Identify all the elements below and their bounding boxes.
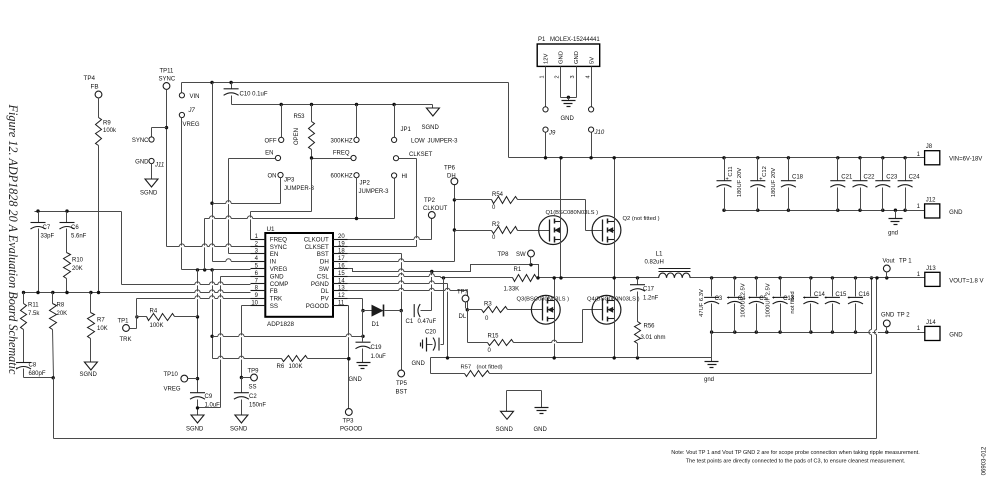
svg-text:R10: R10 (72, 258, 84, 264)
svg-text:TP1: TP1 (118, 319, 130, 325)
svg-text:LOW: LOW (411, 139, 425, 145)
svg-text:300KHZ: 300KHZ (330, 138, 352, 144)
svg-text:33pF: 33pF (41, 234, 55, 240)
svg-text:gnd: gnd (888, 231, 898, 237)
transistor Q4 BSC080N03LS (587, 295, 640, 324)
capacitor C15 (824, 278, 847, 333)
svg-text:FREQ: FREQ (270, 236, 287, 243)
svg-text:7.5k: 7.5k (28, 311, 40, 317)
capacitor C4 (727, 278, 747, 333)
value label 47UF 6.3V (699, 289, 705, 317)
svg-text:J8: J8 (926, 144, 933, 150)
svg-text:SS: SS (249, 385, 257, 391)
svg-text:C18: C18 (792, 175, 804, 181)
svg-text:SYNC: SYNC (270, 244, 288, 251)
svg-text:COMP: COMP (270, 281, 289, 288)
svg-text:C1: C1 (406, 319, 414, 325)
svg-text:FB: FB (91, 84, 99, 91)
svg-text:CLKOUT: CLKOUT (304, 236, 329, 243)
svg-text:Q1(BSC080N03LS ): Q1(BSC080N03LS ) (546, 210, 599, 216)
capacitor C7 33pF (31, 212, 55, 293)
svg-text:SW: SW (516, 252, 526, 258)
svg-text:JUMPER-3: JUMPER-3 (428, 139, 459, 145)
svg-text:11: 11 (338, 301, 345, 307)
test point TP2 GND (881, 313, 910, 333)
resistor R3 0 (468, 302, 543, 323)
wire VOUT sense line (54, 278, 877, 439)
wire DH pin 17 (348, 185, 457, 262)
svg-text:600KHZ: 600KHZ (330, 174, 352, 180)
capacitor C6 5.6nF (60, 212, 87, 253)
ground gnd at PGND rail (704, 358, 719, 384)
capacitor C24 (898, 158, 921, 211)
svg-text:JUMPER-3: JUMPER-3 (284, 186, 315, 192)
svg-text:EN: EN (270, 251, 279, 258)
resistor R9 100k (96, 98, 118, 293)
svg-text:100k: 100k (103, 128, 117, 134)
svg-text:FB: FB (270, 288, 278, 295)
wire Q3/Q4 drain-source verticals (553, 276, 616, 357)
transistor Q2 not fitted (592, 216, 660, 245)
svg-text:TP 2: TP 2 (897, 313, 910, 319)
svg-text:R54: R54 (492, 192, 504, 198)
svg-text:R8: R8 (57, 303, 65, 309)
svg-text:OPEN: OPEN (294, 128, 300, 145)
svg-text:C12: C12 (762, 166, 768, 177)
svg-text:C20: C20 (425, 330, 437, 336)
test point TP3 PGOOD (340, 409, 363, 433)
svg-text:Note: Vout TP 1 and Vout TP GN: Note: Vout TP 1 and Vout TP GND 2 are fo… (671, 450, 920, 456)
wire VIN rail (509, 156, 925, 159)
svg-text:1: 1 (539, 75, 545, 78)
svg-text:180UF 20V: 180UF 20V (771, 168, 777, 197)
svg-text:GND: GND (135, 160, 149, 166)
capacitor C21 (830, 158, 853, 211)
jumper JP1 LOW/CLKSET/HI (392, 105, 459, 145)
svg-text:not fitted: not fitted (790, 291, 796, 313)
svg-text:SYNC: SYNC (132, 138, 149, 144)
sidebar code 06903-012 (982, 446, 988, 475)
jumper JP3 OFF/EN/ON (265, 105, 284, 145)
wire CLKOUT pin 20 to TP2 (348, 219, 432, 240)
svg-text:VREG: VREG (183, 122, 200, 128)
ground GND below P1 (561, 101, 576, 123)
wire FB rail (22, 291, 251, 294)
capacitor C22 (853, 158, 876, 211)
capacitor C12 180UF 20V (750, 158, 777, 211)
wire GND pin 6 to SGND (198, 277, 251, 408)
wire hops (179, 201, 877, 359)
svg-text:JP3: JP3 (284, 178, 295, 184)
wire VREG to PV tie (210, 270, 364, 359)
resistor R56 3.01 ohm (635, 322, 666, 358)
svg-text:10: 10 (251, 301, 258, 307)
resistor R8 20K (50, 293, 68, 439)
svg-text:OFF: OFF (265, 138, 277, 144)
capacitor C19 1.0uF (356, 311, 387, 363)
svg-text:TRK: TRK (270, 296, 283, 303)
svg-text:+: + (847, 296, 851, 302)
svg-text:R2: R2 (492, 222, 500, 228)
svg-text:C2: C2 (249, 394, 257, 400)
svg-text:5V: 5V (590, 57, 596, 64)
svg-text:TP8: TP8 (498, 252, 510, 258)
svg-text:TP4: TP4 (84, 75, 96, 82)
svg-text:JUMPER-3: JUMPER-3 (359, 189, 390, 195)
resistor R7 10K (88, 293, 108, 363)
svg-text:680pF: 680pF (29, 371, 46, 377)
connector J12 GND (917, 197, 964, 218)
connector J8 VIN (917, 144, 983, 165)
svg-text:GND: GND (559, 51, 565, 64)
svg-text:C9: C9 (205, 394, 213, 400)
svg-text:Vout: Vout (883, 259, 895, 265)
svg-text:Figure 12. ADP1828 20 A Evalua: Figure 12. ADP1828 20 A Evaluation Board… (6, 104, 20, 375)
svg-text:16: 16 (338, 264, 345, 270)
svg-text:SYNC: SYNC (159, 77, 176, 83)
svg-text:C10 0.1uF: C10 0.1uF (240, 92, 268, 98)
svg-text:GND: GND (881, 313, 895, 319)
svg-text:5.6nF: 5.6nF (71, 234, 87, 240)
svg-text:2: 2 (555, 75, 561, 78)
svg-text:20K: 20K (57, 311, 68, 317)
svg-text:C23: C23 (886, 175, 898, 181)
connector P1 MOLEX-15244441 (537, 37, 600, 79)
svg-text:Q2 (not fitted ): Q2 (not fitted ) (623, 216, 660, 222)
svg-text:SGND: SGND (496, 427, 514, 433)
ground SGND below R7 (80, 362, 98, 378)
jumper JP2 300KHZ/FREQ/600KHZ (330, 105, 359, 145)
wire VREG branch to C9 (196, 270, 199, 393)
transistor Q1 BSC080N03LS (539, 210, 598, 245)
connector J14 GND (917, 320, 964, 341)
svg-text:PGOOD: PGOOD (340, 427, 363, 433)
svg-text:J7: J7 (188, 108, 196, 114)
resistor R53 OPEN (294, 105, 315, 159)
resistor R1 1.33K (504, 267, 659, 292)
svg-text:TP3: TP3 (343, 419, 355, 425)
svg-text:SS: SS (270, 303, 278, 310)
resistor R54 0 (455, 192, 603, 231)
svg-text:SGND: SGND (140, 191, 158, 197)
svg-text:HI: HI (402, 174, 408, 180)
svg-text:C22: C22 (864, 175, 876, 181)
value label 1000UF 2.5V C4 (741, 283, 747, 317)
svg-text:R1: R1 (514, 267, 522, 273)
svg-text:D1: D1 (372, 322, 380, 328)
value label not fitted C13 (790, 291, 796, 313)
test point TP2 CLKOUT (423, 198, 448, 218)
wire VIN to top rail (182, 81, 509, 158)
ground GND tie (534, 408, 549, 434)
svg-text:TP7: TP7 (457, 290, 469, 296)
test point TP1 TRK (118, 317, 137, 344)
svg-text:R11: R11 (28, 303, 39, 309)
capacitor C8 680pF (16, 363, 54, 378)
capacitor C1 0.47uF (406, 272, 437, 326)
svg-text:GND: GND (574, 51, 580, 64)
ground SGND tie (496, 411, 514, 433)
wire SYNC net to pin 2 (152, 90, 251, 247)
svg-text:TP5: TP5 (396, 381, 408, 387)
svg-text:U1: U1 (267, 226, 276, 233)
svg-text:The test points are directly c: The test points are directly connected t… (686, 459, 906, 465)
svg-text:gnd: gnd (704, 377, 714, 383)
svg-text:J10: J10 (594, 130, 605, 136)
svg-text:GND: GND (270, 273, 284, 280)
test point TP5 BST (396, 311, 408, 396)
svg-text:SGND: SGND (230, 427, 248, 433)
wire SGND rail (232, 103, 433, 106)
jumper J11 SYNC/GND (132, 137, 164, 169)
ground gnd at input rail (888, 211, 903, 237)
wire TRK pin 9 (137, 299, 251, 317)
svg-text:C17: C17 (643, 287, 655, 293)
svg-text:Q3(BSC080N03LS ): Q3(BSC080N03LS ) (517, 297, 570, 303)
svg-text:C15: C15 (835, 292, 847, 298)
ground SGND at rail end (422, 105, 440, 132)
svg-text:TP 1: TP 1 (899, 259, 912, 265)
capacitor C17 1.2nF (630, 278, 659, 322)
svg-text:C11: C11 (728, 166, 734, 176)
wire VIN to pin 4 (210, 83, 250, 262)
jumper J9 (543, 67, 556, 158)
svg-text:JP1: JP1 (401, 127, 412, 133)
svg-text:MOLEX-15244441: MOLEX-15244441 (550, 37, 600, 43)
svg-text:C3: C3 (715, 296, 723, 302)
svg-text:47UF 6.3V: 47UF 6.3V (699, 289, 705, 317)
svg-text:ON: ON (268, 174, 277, 180)
svg-text:R53: R53 (294, 114, 306, 120)
svg-text:1.0uF: 1.0uF (205, 403, 221, 409)
svg-text:GND: GND (534, 427, 548, 433)
wire ON to VIN (213, 178, 281, 204)
svg-text:VIN=6V-18V: VIN=6V-18V (949, 157, 982, 163)
svg-text:SGND: SGND (80, 372, 98, 378)
svg-text:TP2: TP2 (424, 198, 436, 204)
wire 600KHZ/HI to VREG (205, 178, 395, 270)
test point TP4 FB (84, 75, 102, 98)
svg-text:R9: R9 (103, 121, 111, 127)
svg-text:VOUT=1.8 V: VOUT=1.8 V (949, 278, 983, 284)
svg-text:ADP1828: ADP1828 (267, 321, 294, 328)
svg-text:CLKSET: CLKSET (409, 152, 433, 158)
capacitor C23 (875, 158, 898, 211)
svg-text:C7: C7 (43, 225, 51, 231)
wire CSL pin 15 (348, 276, 513, 279)
svg-text:180UF 20V: 180UF 20V (737, 168, 743, 197)
svg-text:PV: PV (321, 296, 330, 303)
wire VREG to pin 5 (182, 118, 251, 272)
resistor R57 not fitted (431, 276, 874, 376)
capacitor C18 (781, 158, 804, 211)
svg-text:18: 18 (338, 249, 345, 255)
wire VOUT rail (691, 276, 925, 279)
test point TP11 SYNC (159, 69, 176, 90)
svg-text:12V: 12V (544, 54, 550, 64)
svg-text:3: 3 (570, 75, 576, 78)
svg-text:1.33K: 1.33K (504, 286, 520, 292)
figure caption (rotated) (6, 104, 20, 375)
svg-text:DH: DH (320, 259, 329, 266)
svg-text:CSL: CSL (317, 273, 330, 280)
svg-text:4: 4 (585, 75, 591, 78)
svg-text:J14: J14 (926, 320, 936, 326)
svg-text:1000UF 2.5V: 1000UF 2.5V (765, 283, 771, 317)
svg-text:12: 12 (338, 293, 345, 299)
svg-text:10K: 10K (97, 326, 108, 332)
value label 1000UF 2.5V C5 (765, 283, 771, 317)
resistor R6 100K pull-up (213, 356, 351, 371)
wire PGND rail (431, 356, 712, 359)
ground SGND below J11 (140, 164, 158, 197)
svg-text:DL: DL (459, 314, 467, 320)
connector J13 VOUT (917, 266, 984, 287)
inductor L1 0.82uH (645, 251, 691, 278)
wire COMP top rail (35, 209, 122, 212)
wire SW pin 16 (348, 263, 539, 277)
svg-text:R6: R6 (277, 364, 285, 370)
svg-text:R15: R15 (488, 334, 500, 340)
svg-text:TRK: TRK (120, 337, 132, 343)
test point TP1 Vout (883, 259, 913, 278)
wire PGND pin 14 (348, 284, 448, 358)
svg-text:J13: J13 (926, 266, 936, 272)
svg-text:C8: C8 (29, 363, 37, 369)
svg-text:SGND: SGND (422, 125, 440, 131)
ground GND at C20 (412, 338, 427, 368)
wire input cap rails (722, 156, 924, 212)
wire P1 pins 2/3 to GND (561, 67, 577, 101)
svg-text:R7: R7 (97, 318, 105, 324)
svg-text:14: 14 (338, 278, 345, 284)
svg-text:C16: C16 (859, 292, 871, 298)
svg-text:SGND: SGND (186, 427, 204, 433)
svg-text:100K: 100K (150, 323, 164, 329)
capacitor C10 0.1uF (224, 83, 268, 105)
ground SGND below C2 (230, 415, 248, 433)
svg-text:20: 20 (338, 234, 345, 240)
svg-text:EN: EN (265, 150, 273, 156)
svg-text:FREQ: FREQ (333, 150, 350, 156)
svg-text:J9: J9 (548, 131, 556, 137)
svg-text:GND: GND (412, 361, 426, 367)
resistor R2 0 (455, 222, 550, 241)
svg-text:L1: L1 (656, 251, 664, 258)
svg-text:R4: R4 (150, 309, 158, 315)
wire SS pin 10 to C2 (240, 306, 251, 380)
svg-text:3.01 ohm: 3.01 ohm (641, 335, 666, 341)
svg-text:1000UF 2.5V: 1000UF 2.5V (741, 283, 747, 317)
capacitor C20 (425, 278, 444, 351)
svg-text:TP11: TP11 (160, 69, 175, 75)
wire EN net to pin 3 (229, 159, 276, 254)
svg-text:C19: C19 (371, 345, 383, 351)
svg-text:C24: C24 (909, 175, 921, 181)
svg-text:C6: C6 (71, 225, 79, 231)
diode D1 (372, 305, 402, 329)
svg-text:(not fitted): (not fitted) (477, 365, 503, 371)
svg-text:1.2nF: 1.2nF (643, 296, 659, 302)
svg-text:15: 15 (338, 271, 345, 277)
wire SGND-GND tie (507, 391, 542, 412)
wire CLKSET to pin 19 (348, 159, 417, 247)
note text (671, 450, 920, 465)
svg-text:BST: BST (396, 390, 408, 396)
test point TP8 SW (498, 250, 535, 264)
svg-text:PGOOD: PGOOD (306, 303, 330, 310)
svg-text:JP2: JP2 (360, 181, 371, 187)
wire PV pin 12 to D1 (348, 299, 372, 313)
wire COMP to pin 7 (122, 212, 251, 285)
svg-text:GND: GND (949, 332, 963, 338)
wire FREQ net to pin 1 (251, 156, 351, 239)
svg-text:1.0uF: 1.0uF (371, 354, 387, 360)
svg-text:P1: P1 (538, 37, 546, 43)
ground SGND below C9 (186, 415, 204, 433)
test point TP7 DL (457, 290, 469, 321)
test point TP10 VREG (164, 372, 198, 393)
wire output cap bottom rail (710, 276, 925, 357)
resistor R10 20K (64, 253, 84, 293)
svg-text:TP10: TP10 (164, 372, 179, 378)
svg-text:R56: R56 (644, 324, 656, 330)
svg-text:J11: J11 (154, 163, 164, 169)
svg-text:GND: GND (561, 116, 575, 122)
capacitor C5 (748, 278, 768, 333)
capacitor C2 150nF (234, 378, 266, 415)
svg-text:19: 19 (338, 241, 345, 247)
svg-text:CLKOUT: CLKOUT (423, 206, 448, 212)
capacitor C16 (847, 278, 870, 333)
svg-text:GND: GND (949, 210, 963, 216)
svg-text:Q4(BSC080N03LS ): Q4(BSC080N03LS ) (587, 297, 640, 303)
resistor R11 7.5k (21, 293, 41, 363)
svg-text:06903-012: 06903-012 (982, 446, 988, 475)
capacitor C13 (772, 278, 795, 333)
capacitor C11 180UF 20V (717, 158, 744, 211)
jumper J7 VIN/VREG (179, 93, 200, 128)
svg-text:VREG: VREG (164, 387, 181, 393)
svg-text:VREG: VREG (270, 266, 288, 273)
transistor Q3 BSC080N03LS (517, 295, 570, 324)
svg-text:BST: BST (317, 251, 329, 258)
svg-text:IN: IN (270, 259, 276, 266)
svg-text:20K: 20K (72, 266, 83, 272)
wire BST pin 18 (348, 254, 403, 313)
capacitor C9 1.0uF (190, 393, 220, 415)
resistor R4 100K (135, 309, 197, 330)
svg-text:TP6: TP6 (444, 166, 456, 172)
svg-text:SW: SW (319, 266, 329, 273)
svg-text:17: 17 (338, 256, 345, 262)
svg-text:J12: J12 (926, 197, 936, 203)
wire Q1/Q2 drain-source verticals (561, 158, 615, 278)
svg-text:TP9: TP9 (248, 369, 260, 375)
wire DL pin 13 (348, 291, 469, 312)
svg-text:100K: 100K (289, 364, 303, 370)
ground GND below C19 (349, 363, 371, 384)
svg-text:PGND: PGND (311, 281, 329, 288)
wire PGOOD pin 11 to TP3 (347, 306, 350, 409)
test point TP9 SS (248, 369, 260, 391)
svg-text:13: 13 (338, 286, 345, 292)
svg-text:R3: R3 (484, 302, 492, 308)
svg-text:GND: GND (349, 377, 363, 383)
svg-text:C21: C21 (841, 175, 853, 181)
svg-text:CLKSET: CLKSET (305, 244, 329, 251)
jumper J10 (589, 67, 605, 158)
